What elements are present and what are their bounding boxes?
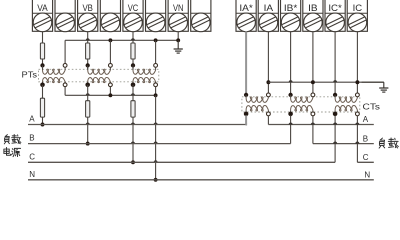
- junction dot IA / secondary bus: [266, 80, 270, 84]
- fuse F3 (VC): [131, 43, 135, 59]
- CT secondary bus: [268, 81, 383, 83]
- label 负载 (load) right: [379, 138, 385, 148]
- CT1 bottom polarity dot: [244, 112, 249, 117]
- wire VC terminal to fuse F3: [132, 31, 134, 43]
- hop PT3-wire over return bus: [131, 93, 135, 95]
- wire PT1 bottom dot to fuse F4: [42, 85, 44, 98]
- svg-text:IB*: IB*: [284, 3, 298, 14]
- wire CT1 circle to A load: [267, 116, 269, 125]
- terminal block T8 (unlabeled): [191, 0, 211, 31]
- fuse F1 (VA): [40, 43, 44, 59]
- wire bus to PT2 top circle: [109, 40, 111, 63]
- svg-text:IB: IB: [308, 3, 318, 14]
- CT3 primary winding: [334, 110, 336, 114]
- junction dot bus/PT3: [154, 38, 158, 42]
- junction dot IB / secondary bus: [311, 80, 315, 84]
- CTs dashed enclosure: [242, 97, 360, 112]
- neutral drop wire to N line: [155, 95, 157, 180]
- terminal block T7 (VN): [168, 0, 188, 31]
- svg-text:CTs: CTs: [363, 102, 381, 112]
- CT2 top polarity dot: [288, 93, 292, 97]
- PT1 bottom polarity dot: [40, 83, 45, 88]
- terminal block IA: [258, 0, 278, 31]
- PT2 secondary winding: [87, 65, 89, 70]
- fuse F2 (VB): [86, 43, 90, 59]
- terminal block IB: [303, 0, 323, 31]
- terminal block T5 (VC): [123, 0, 143, 31]
- PT3 secondary winding: [132, 65, 134, 70]
- wire F5 to B line: [87, 117, 89, 144]
- voltage common bus: [65, 39, 178, 41]
- hop CT2-dot wire over A: [289, 122, 293, 124]
- junction dot IC / secondary bus: [355, 80, 359, 84]
- svg-text:IC*: IC*: [328, 3, 342, 14]
- PT2 primary winding: [87, 82, 89, 85]
- CT1 primary winding: [245, 110, 247, 114]
- PT1 primary winding: [42, 82, 44, 85]
- wire bus to PT3 top circle: [155, 40, 157, 63]
- neutral line N: [28, 179, 374, 181]
- ground (CT secondary): [362, 81, 384, 83]
- svg-text:B: B: [363, 134, 368, 143]
- svg-text:VB: VB: [82, 3, 93, 14]
- wire F4 to A line: [42, 117, 44, 124]
- wire IA* terminal to CT1 dot (thick primary): [245, 31, 247, 93]
- svg-text:A: A: [363, 115, 369, 124]
- svg-text:A: A: [29, 115, 35, 124]
- PT3 polarity dot (secondary): [131, 63, 135, 67]
- terminal block T6 (unlabeled): [146, 0, 166, 31]
- terminal block IA*: [236, 0, 256, 31]
- wire IC terminal down to CT3 circle: [356, 31, 358, 93]
- hop neutral drop over C: [154, 160, 158, 162]
- phase line B (source side): [28, 143, 291, 145]
- PT1 bottom-right terminal circle: [63, 83, 67, 87]
- hop IB* wire over secondary bus: [289, 80, 293, 82]
- wire PT1 circle to primary bus: [64, 87, 66, 96]
- wire F6 to C line: [132, 117, 134, 162]
- terminal block T2 (unlabeled): [55, 0, 75, 31]
- wire IB* terminal to CT2 dot: [290, 31, 292, 93]
- CT3 bottom polarity dot: [333, 112, 338, 117]
- PT2 top-right terminal circle: [109, 64, 113, 68]
- svg-text:VA: VA: [37, 3, 48, 14]
- hop neutral drop over B: [154, 142, 158, 144]
- hop CT3-dot wire over B: [333, 142, 337, 144]
- svg-text:B: B: [29, 134, 34, 143]
- wire VA terminal to fuse F1: [42, 31, 44, 43]
- hop VC wire over bus: [131, 38, 135, 40]
- junction dot F6 / C line: [131, 160, 135, 164]
- PT3 bottom polarity dot: [131, 83, 136, 88]
- wire PT3 circle to return bus: [155, 87, 157, 96]
- terminal block T1 (VA): [32, 0, 52, 31]
- svg-text:C: C: [363, 153, 369, 162]
- wire CT2 circle to B load: [312, 116, 314, 144]
- wire CT3 circle to C load: [356, 116, 358, 163]
- svg-text:N: N: [29, 170, 35, 179]
- hop CT3-circle wire over B: [355, 142, 359, 144]
- wire CT2 dot to B source: [290, 115, 292, 143]
- wire CT3 dot to C source: [334, 115, 336, 162]
- label 负载 (load) left: [4, 135, 9, 144]
- CT2 secondary winding: [290, 95, 292, 98]
- hop F5 wire over A: [86, 122, 90, 124]
- hop IC* wire over secondary bus: [333, 80, 337, 82]
- CT2 top terminal circle: [311, 93, 315, 97]
- CT3 top polarity dot: [333, 93, 337, 97]
- wire bus to PT1 top circle: [64, 40, 66, 63]
- CT1 top polarity dot: [244, 93, 248, 97]
- wire PT3 bottom dot to fuse F6: [132, 85, 134, 101]
- ground (voltage neutral): [177, 40, 179, 49]
- PTs dashed enclosure: [39, 69, 159, 82]
- wire PT2 circle to return bus: [109, 87, 111, 96]
- junction dot return bus / PT3: [154, 93, 158, 97]
- phase line C (source side): [28, 161, 335, 163]
- phase line C (load side): [357, 161, 373, 163]
- hop CT3-circle wire over A: [355, 122, 359, 124]
- hop F6 wire over B: [131, 142, 135, 144]
- label 电源 (source) left: [4, 147, 11, 155]
- fuse F4 (phase A): [40, 98, 44, 117]
- terminal block T4 (unlabeled): [100, 0, 120, 31]
- svg-text:VC: VC: [128, 3, 139, 14]
- PT1 polarity dot (secondary): [40, 63, 44, 67]
- wire F1 to PT1 primary dot: [42, 59, 44, 69]
- phase line A (source side): [28, 124, 246, 126]
- phase line A (load side): [268, 124, 373, 126]
- CT1 bottom terminal circle: [267, 112, 271, 116]
- hop VB wire over bus: [86, 38, 90, 40]
- wire VB terminal to fuse F2: [87, 31, 89, 43]
- junction dot VN/bus: [176, 38, 180, 42]
- CT3 top terminal circle: [356, 93, 360, 97]
- wire VN terminal to bus: [177, 31, 179, 40]
- hop neutral drop over A: [154, 122, 158, 124]
- CT3 secondary winding: [334, 95, 336, 98]
- CT2 bottom terminal circle: [311, 112, 315, 116]
- wire IA terminal down to CT1 circle: [267, 31, 269, 93]
- junction dot F4 / A line: [41, 123, 45, 127]
- PT2 bottom polarity dot: [85, 83, 90, 88]
- wire CT1 dot to A source (thick): [245, 115, 247, 124]
- junction dot F5 / B line: [86, 142, 90, 146]
- svg-text:VN: VN: [173, 3, 184, 14]
- hop PT2-wire over return bus: [86, 93, 90, 95]
- svg-text:IC: IC: [353, 3, 363, 14]
- wire IB terminal down to CT2 circle: [312, 31, 314, 93]
- wire PT2 bottom dot to fuse F5: [87, 85, 89, 101]
- hop CT2-circle wire over A: [311, 122, 315, 124]
- svg-text:N: N: [364, 171, 370, 180]
- svg-text:IA*: IA*: [239, 3, 253, 14]
- wire F2 to PT2 dot: [87, 59, 89, 69]
- CT2 bottom polarity dot: [288, 112, 293, 117]
- terminal block IC*: [325, 0, 345, 31]
- fuse F5 (phase B): [86, 101, 90, 117]
- svg-text:C: C: [29, 152, 35, 161]
- terminal block IB*: [281, 0, 301, 31]
- PT1 secondary winding: [42, 65, 44, 70]
- junction dot bus/PT2: [108, 38, 112, 42]
- PT2 bottom-right terminal circle: [109, 83, 113, 87]
- PT1 top-right terminal circle: [63, 64, 67, 68]
- junction dot neutral drop / N line: [154, 178, 158, 182]
- PT primary return bus: [65, 94, 156, 96]
- hop F6 wire over A: [131, 122, 135, 124]
- phase line B (load side): [313, 143, 374, 145]
- fuse F6 (phase C): [131, 101, 135, 117]
- wire F3 to PT3 dot: [132, 59, 134, 69]
- hop CT3-dot wire over A: [333, 122, 337, 124]
- junction dot return bus / PT2: [108, 93, 112, 97]
- CT1 secondary winding: [245, 95, 247, 98]
- CT1 top terminal circle: [267, 93, 271, 97]
- terminal block T3 (VB): [78, 0, 98, 31]
- PT3 primary winding: [132, 82, 134, 85]
- wire IC* terminal to CT3 dot: [334, 31, 336, 93]
- terminal block IC: [347, 0, 367, 31]
- PT3 top-right terminal circle: [154, 64, 158, 68]
- svg-text:PTs: PTs: [22, 70, 38, 80]
- PT3 bottom-right terminal circle: [154, 83, 158, 87]
- CT2 primary winding: [290, 110, 292, 114]
- svg-text:IA: IA: [264, 3, 274, 14]
- CT3 bottom terminal circle: [356, 112, 360, 116]
- PT2 polarity dot (secondary): [86, 63, 90, 67]
- three-phase meter wiring schematic with PTs and CTs: [0, 0, 400, 186]
